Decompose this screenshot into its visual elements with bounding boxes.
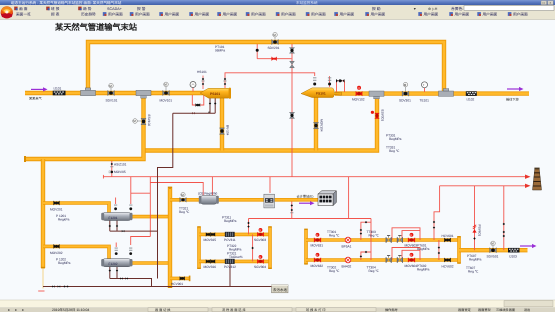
valve HCV901: [180, 276, 185, 280]
regulator PCV312: [225, 259, 235, 264]
svg-text:HCV901: HCV901: [171, 282, 183, 286]
svg-text:RegMPa: RegMPa: [469, 258, 482, 262]
arrow outlet downstream: [507, 87, 524, 91]
bottom drain header valves: [52, 285, 68, 287]
relief valve PSV601: [472, 225, 476, 233]
wire AS101 stem: [111, 161, 113, 177]
svg-text:BH402: BH402: [342, 265, 352, 269]
outlet vent riser diamonds: [503, 223, 505, 237]
wire metering run: [170, 198, 318, 202]
wire vent crossover y72.8: [225, 73, 315, 88]
toolbar button icons: [14, 7, 511, 16]
F1202 drain diamonds: [109, 269, 119, 271]
flare arrow heads: [525, 175, 531, 189]
arrow city outlet: [520, 244, 537, 248]
svg-text:用户画面: 用户画面: [311, 12, 326, 17]
valve MOV101: [163, 82, 170, 96]
svg-text:RegMPa: RegMPa: [389, 137, 402, 141]
svg-text:用户画面: 用户画面: [223, 12, 238, 17]
wire bypass tap U: [257, 44, 291, 59]
svg-text:画面登定: 画面登定: [458, 308, 472, 312]
window title bar: [0, 0, 555, 5]
wire separator feed drop: [41, 159, 45, 289]
wire F1202 outlet: [132, 261, 171, 265]
svg-text:MOV632: MOV632: [311, 264, 324, 268]
svg-text:Reg ℃: Reg ℃: [369, 233, 380, 237]
svg-text:ESV102: ESV102: [147, 115, 151, 127]
valve MOV632 (red): [314, 253, 321, 263]
wire skid interline: [252, 234, 254, 261]
svg-text:用户画面: 用户画面: [424, 12, 439, 17]
heater instrument circle train B: [345, 257, 351, 263]
insulating joint IJ102: [466, 91, 477, 96]
svg-text:用户画面: 用户画面: [195, 12, 210, 17]
valve MOV631 (red): [314, 233, 321, 243]
toolbar buttons row: [16, 6, 528, 17]
valve MOV202: [53, 244, 59, 249]
svg-text:Reg ℃: Reg ℃: [468, 269, 479, 273]
status bar upper: [0, 300, 555, 307]
wire skid drain: [229, 261, 231, 286]
svg-text:♦: ♦: [22, 308, 24, 312]
valve MOV604 (red): [408, 253, 415, 263]
wire collection header vertical: [168, 188, 172, 287]
arrow to metering skid: [299, 201, 315, 205]
svg-text:操作指导: 操作指导: [385, 308, 399, 312]
wire train A relief riser: [434, 186, 440, 240]
svg-text:去计量站(E): 去计量站(E): [297, 195, 314, 199]
insulating joint IJ101: [53, 91, 66, 96]
F1201 drain diamonds and valve: [109, 225, 125, 232]
svg-text:MOV631: MOV631: [311, 244, 324, 248]
AS101 stem fittings: [109, 163, 113, 173]
wire F1202 drain header: [110, 279, 152, 287]
heater instrument circle train A: [345, 237, 351, 243]
valve SGV303 (red): [257, 228, 264, 237]
svg-text:SDV201: SDV201: [268, 46, 280, 50]
TE101 thermometer: [422, 82, 428, 88]
wire regulator skid left header: [197, 227, 201, 268]
vessel PS101 pig receiver: [200, 88, 231, 99]
petrochina logo: [1, 6, 13, 18]
wire heater right header: [457, 237, 461, 263]
wire ESV301 drop and recycle header: [144, 94, 378, 151]
regulator PCV311: [225, 232, 235, 237]
svg-text:画面一览: 画面一览: [16, 12, 31, 17]
svg-text:MOV104: MOV104: [319, 119, 323, 132]
svg-text:画面重现: 画面重现: [478, 308, 492, 312]
svg-text:MOV603: MOV603: [405, 244, 418, 248]
flow conditioner / silencer on metering run: [199, 195, 219, 204]
svg-text:输往下游: 输往下游: [506, 98, 520, 102]
svg-text:某某来气: 某某来气: [29, 97, 43, 101]
valve MOV603 (red): [408, 233, 415, 243]
svg-text:班 报 表 打 印: 班 报 表 打 印: [306, 308, 325, 312]
svg-text:MOV201: MOV201: [50, 208, 63, 212]
wire F1201 drains: [109, 220, 111, 231]
svg-text:BV-104: BV-104: [225, 125, 229, 136]
wire F1202 drains: [109, 266, 111, 278]
wire heater trains riser: [370, 219, 372, 261]
svg-text:TE101: TE101: [420, 98, 430, 102]
wire separator train1 inlet: [43, 203, 109, 214]
svg-text:用户画面: 用户画面: [251, 12, 266, 17]
svg-text:用户画面: 用户画面: [513, 12, 528, 17]
svg-text:报 勤: 报 勤: [372, 6, 381, 11]
svg-text:⊕ ▷H: ⊕ ▷H: [428, 7, 438, 11]
vessel F1202 separator: [101, 259, 132, 267]
svg-text:用户画面: 用户画面: [340, 12, 355, 17]
svg-text:SGV304: SGV304: [254, 265, 266, 269]
wire loop over train A outlet valves: [392, 228, 420, 240]
svg-text:Reg ℃: Reg ℃: [329, 233, 340, 237]
svg-text:H: H: [410, 234, 412, 237]
svg-text:F1202: F1202: [109, 262, 118, 266]
wire PSV601 riser: [474, 186, 476, 250]
valve SDV301: [402, 82, 409, 96]
wire HCV901 vent stub: [170, 277, 190, 281]
svg-text:SDV301: SDV301: [399, 98, 411, 102]
FS101 stem 2: [328, 76, 331, 87]
valve SDV501: [490, 241, 497, 253]
wire bottom drain header: [43, 286, 272, 288]
svg-text:PCV312: PCV312: [224, 265, 236, 269]
wire flare header 1: [103, 176, 525, 178]
toolbar: [0, 5, 555, 20]
svg-text:组态王运行系统 - 某天然气管道输气末站监控 画面: 某天然: 组态王运行系统 - 某天然气管道输气末站监控 画面: 某天然气输气末站: [11, 0, 122, 5]
wire bypass U over train A: [361, 222, 371, 240]
svg-text:MOV102: MOV102: [352, 98, 365, 102]
svg-text:♦: ♦: [15, 308, 17, 312]
window buttons: [541, 1, 547, 5]
svg-text:96MPa: 96MPa: [215, 48, 225, 52]
sewage pit label box: [272, 285, 289, 293]
train A relief riser diamonds: [433, 221, 435, 229]
F1202 drain header valves: [120, 277, 128, 279]
tee to ESV102 drop: [136, 90, 151, 98]
valve ESV301 (red): [371, 111, 380, 119]
svg-text:SDV501: SDV501: [487, 254, 499, 258]
wire F1201 outlet: [132, 215, 171, 219]
svg-text:RegMPa: RegMPa: [224, 219, 237, 223]
svg-text:PCV311: PCV311: [224, 238, 236, 242]
wire PS101 drains: [209, 97, 211, 113]
PS101 drain diamonds: [209, 102, 217, 104]
valve metering inlet: [180, 192, 186, 202]
vent riser ball valve: [289, 48, 294, 54]
wire heater left header: [304, 230, 308, 264]
svg-text:AS/Z101: AS/Z101: [114, 162, 127, 166]
wire regulator skid right header: [268, 227, 272, 268]
tee to ESV301 drop: [369, 91, 384, 99]
wire heater train A: [306, 238, 459, 242]
meter sample stem fittings: [290, 204, 293, 213]
insulating joint IJ103: [508, 248, 520, 253]
svg-text:RegMPa: RegMPa: [58, 261, 71, 265]
svg-text:HCV602: HCV602: [442, 264, 454, 268]
valve MOV201: [53, 201, 59, 206]
svg-text:某天然气管道输气末站: 某天然气管道输气末站: [55, 22, 138, 32]
F1201 stem fittings: [114, 205, 132, 211]
vessel F1201 separator: [101, 213, 132, 221]
svg-text:班 报: 班 报: [51, 6, 60, 11]
svg-text:三维线条画面: 三维线条画面: [496, 308, 516, 312]
svg-text:MOV/05: MOV/05: [114, 170, 126, 174]
wire ESV102 drop and west low pipe: [25, 93, 144, 159]
svg-text:H: H: [316, 254, 318, 257]
svg-text:RegMPa: RegMPa: [417, 247, 430, 251]
arrow station inlet: [31, 87, 48, 91]
svg-text:合要色:: 合要色:: [451, 6, 463, 11]
wire drain main vertical: [158, 113, 173, 278]
svg-text:IJ103: IJ103: [509, 254, 517, 258]
FS101 stem 1: [313, 77, 316, 85]
tee from bypass return: [439, 89, 454, 97]
svg-text:SDV101: SDV101: [106, 98, 118, 102]
wire regulator skid line1: [199, 233, 270, 237]
svg-text:HS101: HS101: [197, 70, 207, 74]
wire station outlet to city: [459, 248, 528, 252]
svg-text:流 程 画 面 选 择: 流 程 画 面 选 择: [222, 308, 246, 312]
svg-text:TAGbar%: TAGbar%: [229, 255, 243, 259]
svg-text:用户画面: 用户画面: [135, 12, 150, 17]
wire PS101 drain header: [173, 112, 215, 114]
vessel FS101 filter separator: [301, 88, 342, 98]
wire regulator skid feed: [248, 219, 250, 235]
svg-text:PSV601: PSV601: [478, 225, 482, 237]
svg-text:RegMPa: RegMPa: [417, 267, 430, 271]
PS101 right stem diamonds: [223, 78, 226, 85]
PI gauge at PS101 inlet: [190, 82, 196, 88]
valve on vent riser at header crossing: [289, 112, 294, 118]
wire station bypass loop (up-over-down): [88, 42, 444, 94]
flow computer 3d box: [318, 191, 336, 206]
wire meter box stub: [269, 177, 271, 193]
flare stack: [533, 168, 542, 190]
wire regulator skid line2: [199, 260, 270, 264]
svg-text:用户画面: 用户画面: [281, 12, 296, 17]
svg-text:RegkPa: RegkPa: [58, 218, 70, 222]
FS101 bypass valve pair: [336, 79, 344, 83]
svg-text:(CE Reg/KW): (CE Reg/KW): [198, 191, 217, 195]
svg-text:2019年5月28日 11:10:04: 2019年5月28日 11:10:04: [52, 308, 89, 312]
wire mid relief header: [249, 218, 372, 220]
PSV601 riser diamond: [473, 237, 475, 239]
valve ESV102: [133, 118, 146, 124]
gate valves train B: [386, 255, 392, 263]
svg-text:报 表: 报 表: [51, 12, 60, 17]
wire separator train2 inlet: [43, 246, 109, 259]
svg-text:ESV301: ESV301: [380, 110, 384, 122]
train B U diamonds: [360, 251, 368, 258]
svg-text:Reg ℃: Reg ℃: [389, 149, 400, 153]
svg-text:IJ102: IJ102: [467, 97, 475, 101]
pipe end caps: [24, 156, 461, 288]
svg-text:▼: ▼: [413, 7, 417, 11]
svg-text:H: H: [358, 86, 360, 90]
svg-text:用户画面: 用户画面: [108, 12, 123, 17]
svg-text:画 面: 画 面: [19, 7, 28, 11]
wire heater train B: [306, 258, 459, 262]
valve HCV602: [444, 258, 451, 263]
svg-text:H: H: [316, 234, 318, 237]
svg-text:历史趋势: 历史趋势: [81, 12, 96, 17]
svg-text:MOV315: MOV315: [204, 238, 217, 242]
svg-text:用户画面: 用户画面: [371, 12, 386, 17]
svg-text:H: H: [410, 254, 412, 257]
tee to bypass riser: [81, 88, 96, 96]
svg-text:SCADA+: SCADA+: [107, 7, 122, 11]
toolbar input box: [464, 6, 554, 11]
valve on PS101 downcomer: [219, 128, 224, 134]
svg-text:趋 势: 趋 势: [83, 6, 92, 11]
ultrasonic flow meter body: [264, 194, 275, 208]
wire PS101 outlet downcomer: [220, 96, 224, 151]
wire riser to mid header: [348, 177, 350, 219]
wire F1201 instrument stems: [115, 198, 117, 205]
wire F1202 instrument feed: [149, 177, 151, 237]
wire outlet vent riser: [503, 186, 505, 250]
valve under PS101 bypass: [195, 103, 200, 107]
svg-text:PS101: PS101: [210, 92, 220, 96]
gate valves train A: [386, 235, 392, 243]
wire flare header 2: [440, 185, 525, 187]
wire main inlet pipe west: [25, 91, 205, 95]
svg-text:IJ101: IJ101: [54, 86, 62, 90]
valve SDV101: [108, 83, 115, 95]
svg-text:SGV303: SGV303: [254, 238, 266, 242]
svg-text:FS101: FS101: [316, 92, 326, 96]
vent riser gate valve: [290, 61, 295, 68]
wire inter-train stem: [438, 240, 440, 260]
wire drain red tick: [38, 290, 44, 292]
svg-text:Reg ℃: Reg ℃: [369, 269, 380, 273]
svg-text:♦: ♦: [8, 308, 10, 312]
wire bypass U over train B: [361, 252, 371, 260]
wire loop over train B outlet valves: [392, 248, 420, 261]
svg-text:T: T: [423, 83, 425, 87]
svg-text:用户画面: 用户画面: [455, 12, 470, 17]
svg-text:BP5A1: BP5A1: [342, 245, 352, 249]
wire main outlet pipe east: [335, 91, 529, 95]
svg-text:MOV604: MOV604: [405, 264, 418, 268]
inter-train stem diamonds: [438, 246, 440, 254]
svg-text:Reg ℃: Reg ℃: [329, 269, 340, 273]
svg-text:×: ×: [549, 1, 551, 5]
wire meter sample stem: [291, 202, 293, 219]
wire PS101 vent riser x292: [291, 44, 293, 177]
svg-text:H: H: [259, 256, 261, 259]
svg-text:Reg ℃: Reg ℃: [179, 210, 190, 214]
svg-text:用户画面: 用户画面: [165, 12, 180, 17]
wire PI stem at PS101: [192, 87, 194, 92]
svg-text:用户画面: 用户画面: [483, 12, 498, 17]
status bar lower: [0, 307, 555, 312]
valve MOV312 line2: [206, 259, 215, 263]
red PSV bowtie on stub: [256, 49, 277, 61]
valve HCV601: [444, 238, 451, 243]
svg-text:去污水池: 去污水池: [273, 288, 287, 292]
wire FS101 downcomer: [314, 97, 318, 151]
train A U diamonds: [360, 221, 368, 235]
skid feed stem diamonds: [247, 222, 249, 228]
valve MOV311 line1: [206, 232, 215, 236]
wire heater supply drop: [211, 177, 213, 196]
valve on station bypass: [272, 32, 279, 44]
svg-text:MOV316: MOV316: [204, 265, 217, 269]
F1202 stem fittings: [115, 248, 133, 255]
wire PS101 under-bypass: [192, 95, 204, 105]
skid interline diamond: [251, 247, 253, 249]
svg-text:H: H: [259, 229, 261, 232]
HS101 stem: [201, 76, 204, 90]
wire FS101 outlet bypass: [337, 81, 345, 92]
valve MOV102 (red): [356, 86, 363, 96]
svg-text:MOV202: MOV202: [50, 251, 63, 255]
valve MOV104 on FS101 downcomer: [313, 122, 318, 128]
wire TE101 stem: [424, 88, 426, 92]
valve SGV304 (red): [257, 255, 264, 264]
svg-text:MOV101: MOV101: [160, 98, 173, 102]
svg-text:报 警: 报 警: [137, 6, 146, 11]
svg-text:画 面 切 换: 画 面 切 换: [155, 308, 171, 312]
svg-text:末站监控系统: 末站监控系统: [296, 0, 318, 5]
svg-text:F1201: F1201: [109, 216, 118, 220]
svg-text:退出: 退出: [524, 308, 530, 312]
svg-text:HCV601: HCV601: [442, 234, 454, 238]
drain header small valve: [192, 111, 210, 114]
